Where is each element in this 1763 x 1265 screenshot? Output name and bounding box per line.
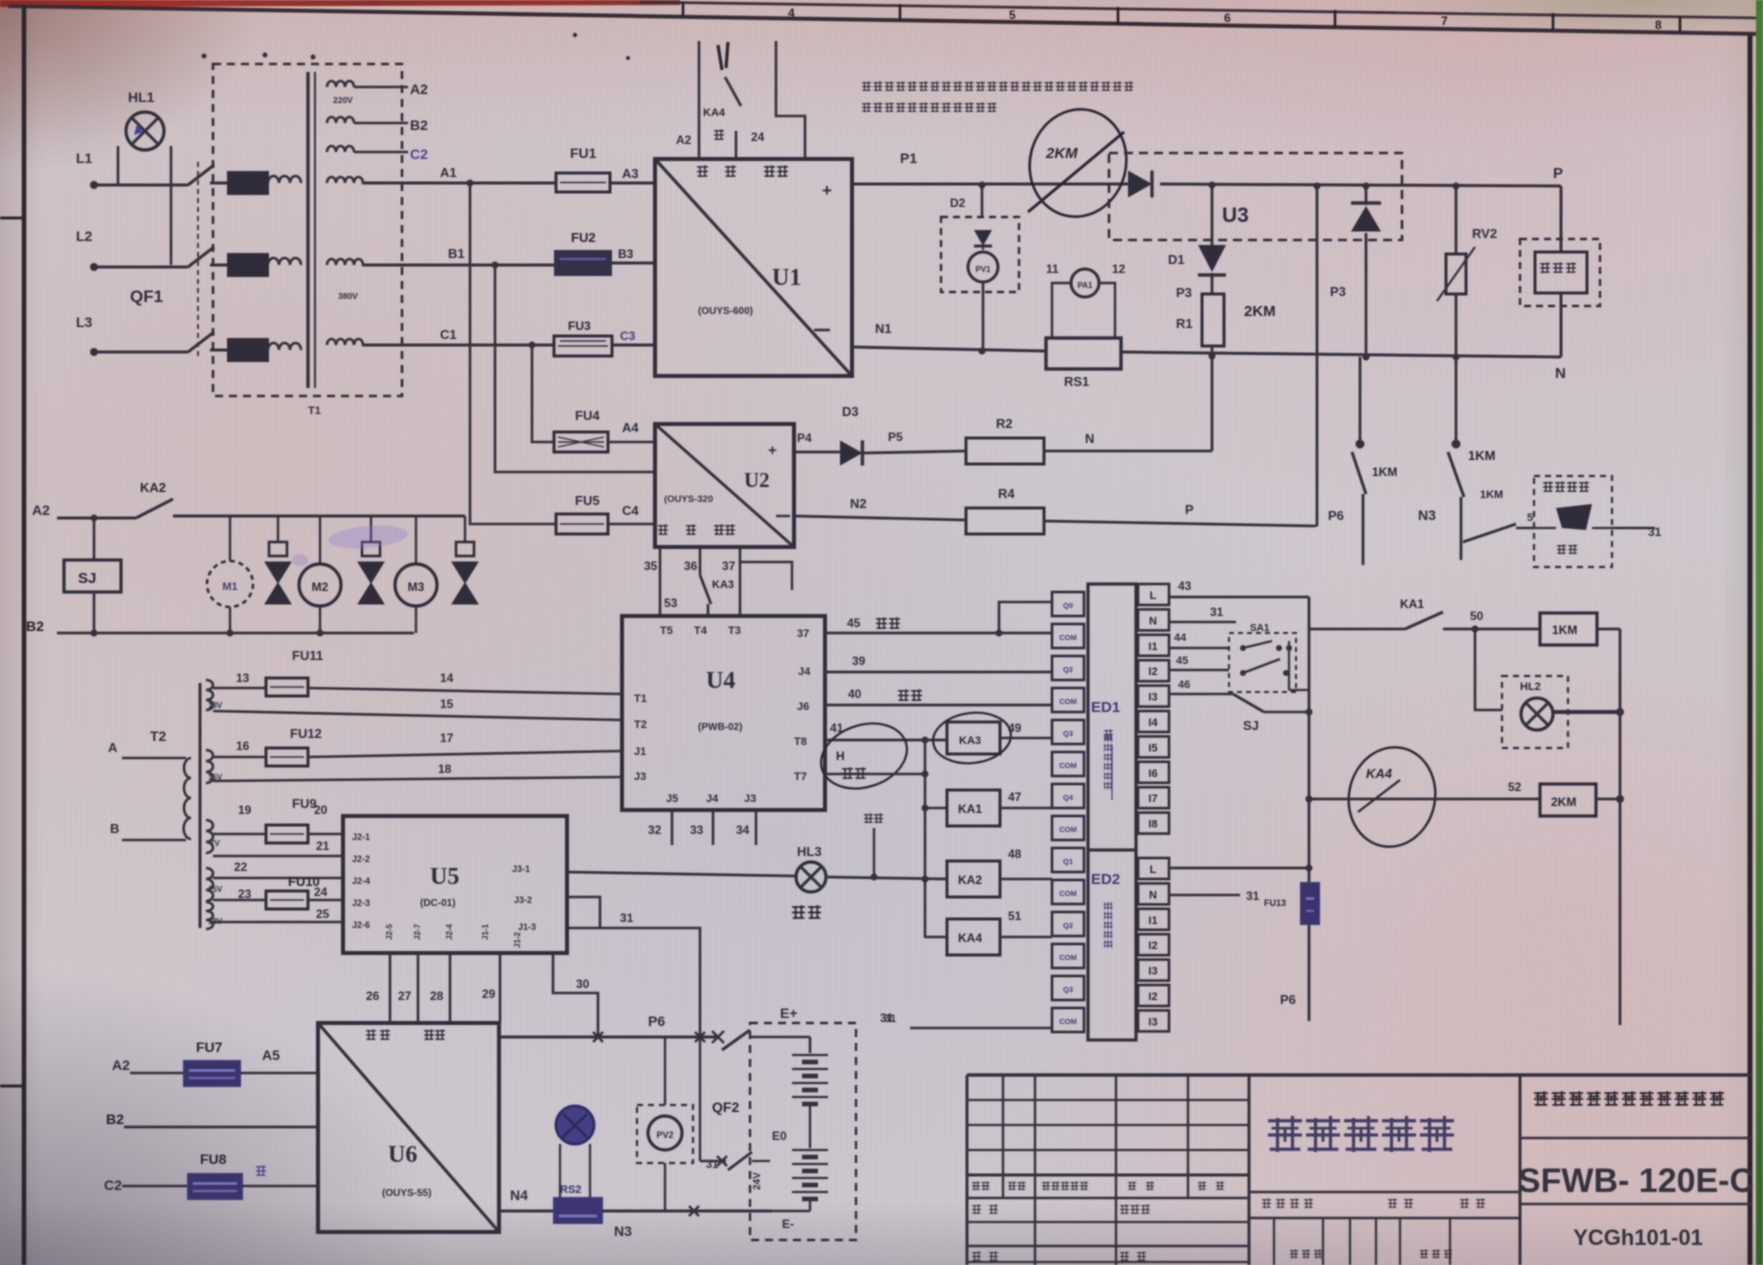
wire 31 to P6 (567, 911, 700, 1037)
wire 18 (213, 762, 622, 781)
breaker QF1 pole 1 (188, 165, 230, 185)
controller U4 (622, 616, 825, 810)
time relay SJ (64, 515, 121, 634)
transformer T1 core (308, 72, 315, 388)
company name (1534, 1091, 1724, 1106)
net B2 into U6 (106, 1111, 318, 1127)
wire C1 to FU4 branch (529, 342, 555, 443)
U2 pin colour labels (658, 524, 735, 535)
ED2 right terminal column (1138, 858, 1169, 1031)
motor M3 (395, 516, 437, 633)
fuse FU7 (112, 1039, 318, 1086)
net B2 row (26, 618, 414, 637)
meter stamp (blue) (556, 1106, 594, 1198)
wire T7 to relay bus (825, 771, 929, 778)
title text (electrical schematic) (1268, 1116, 1454, 1152)
fuse FU9 (213, 796, 343, 843)
wire 43 from ED1 L (1169, 579, 1309, 597)
ruler tick marks (683, 2, 1680, 32)
lamp HL1 (118, 89, 171, 265)
wire 30 to P6 (553, 953, 598, 1037)
relay coil KA2 (947, 847, 1052, 897)
wire 21 (213, 839, 343, 856)
wire 25 (213, 907, 343, 922)
transformer T1 enclosure (dashed) (213, 64, 402, 417)
transformer T1 primary winding C (228, 339, 301, 361)
wire A1 to FU5 branch (467, 180, 557, 525)
U1 input pin colour labels (697, 165, 788, 177)
node L1 (76, 150, 188, 189)
motor M1 (207, 516, 253, 633)
wire 15 (213, 697, 622, 720)
wire 52 and coil 2KM (1306, 780, 1625, 816)
relay contact KA1 and coil 1KM (1309, 597, 1620, 645)
wire 31 from ED1 N (1169, 605, 1236, 622)
relay coil KA4 (925, 909, 1052, 955)
freewheel module U3 (dashed) (1109, 153, 1402, 240)
wire 44 from ED1 I1 (1169, 632, 1229, 648)
diode D1 (1168, 182, 1226, 276)
time relay contact SJ (1233, 694, 1309, 733)
title block main dividers (1249, 1075, 1520, 1265)
U2 output pin 35 (644, 547, 660, 616)
fuse FU8 (104, 1151, 318, 1199)
diode inside U3 on P1 (1128, 171, 1561, 198)
T2 winding 7V (206, 820, 220, 853)
transformer T1 secondary winding B1 (327, 246, 465, 301)
sheet top ruler red band (0, 0, 680, 7)
transformer T1 secondary winding C1 (327, 327, 460, 345)
voltmeter PV2 (637, 1037, 693, 1211)
model number SFWB-120E-C (1518, 1162, 1754, 1200)
wire J3-2 jog (567, 897, 600, 928)
fuse FU12 (213, 726, 622, 766)
solenoid valve 3 (452, 516, 478, 604)
title block bottom row marks (967, 1250, 1452, 1262)
node L2 (76, 228, 188, 271)
wire 41 with relay coil KA3 (825, 708, 1052, 767)
annotation scribble on T8 wire (813, 713, 916, 799)
node L3 (76, 314, 188, 356)
right coil return bus (1619, 629, 1622, 1025)
battery negative link (770, 1210, 810, 1213)
wire 40 (temperature) to ED1 (825, 687, 1052, 705)
transformer T1 secondary winding A1 (327, 165, 457, 183)
battery enclosure (750, 1005, 896, 1240)
left margin tick y1086 (0, 1085, 22, 1088)
left margin tick y218 (0, 217, 22, 220)
fuse FU4 (554, 408, 655, 452)
varistor RV2 (1437, 183, 1497, 361)
fuse FU2 (460, 230, 655, 275)
title block sign rows (972, 1204, 1150, 1261)
shunt RS2 (499, 1184, 772, 1239)
thyristor branch in U3 (1351, 183, 1381, 361)
U5 bottom wire 26 (366, 953, 390, 1023)
rectifier U6 (318, 1023, 499, 1232)
ED1 right terminal column (1138, 584, 1169, 834)
breaker QF1 label and linkage (130, 162, 198, 360)
wire B2 into U1 (714, 129, 736, 159)
lamp HL3 (over-discharge) (567, 844, 947, 919)
breaker QF1 pole 2 (188, 247, 230, 267)
note text top (862, 81, 1133, 112)
wire E0 tap with QF2 middle pole (700, 1037, 770, 1171)
net P6 end (1280, 992, 1296, 1007)
U4 bottom stub 32 (648, 810, 672, 845)
wire 31 to ED2 (880, 1011, 1052, 1028)
sheet border left line (22, 6, 27, 1265)
relay coil bus (922, 738, 929, 938)
wire P6 from U6 (499, 1013, 724, 1043)
rectifier U2 (655, 424, 794, 547)
resistor R2 (966, 416, 1212, 464)
title block outer frame (967, 1075, 1752, 1265)
transformer T1 secondary tap A2 (327, 81, 428, 105)
battery cells (752, 1055, 828, 1231)
U5 bottom wire 27 (398, 953, 418, 1023)
fuse FU5 (556, 493, 655, 534)
wire 31 from ED2 N (1169, 889, 1260, 903)
ED terminal left column (1052, 592, 1084, 1032)
fuse FU1 (450, 145, 655, 192)
breaker QF1 pole 3 (188, 332, 230, 352)
wire 45 from ED1 I2 (1169, 655, 1229, 670)
sheet border top line (8, 2, 1763, 34)
U5 bottom wire 28 (430, 953, 450, 1023)
wire B1 to U2 branch (492, 262, 656, 473)
rectifier U1 (655, 159, 852, 376)
solenoid valve 1 (265, 516, 291, 604)
relay coil KA1 (925, 790, 1052, 826)
T2 winding 15V-1 (206, 750, 223, 783)
fuse FU11 (213, 648, 622, 696)
diode D3 (794, 404, 966, 466)
wire N2 and resistor R4 (794, 486, 1317, 534)
wire P1 rail (852, 150, 1130, 184)
control bus vertical (1306, 597, 1313, 1021)
title block revision row labels (972, 1182, 1224, 1190)
T2 winding 18V-1 (206, 680, 223, 710)
title block right rows (1520, 1138, 1752, 1204)
drawing number YCGh101-01 (1573, 1225, 1703, 1250)
node N (1555, 365, 1566, 382)
contactor contact 1KM (to P6) (1328, 357, 1397, 565)
motor M2 (299, 516, 341, 633)
annotation circled 2KM (1018, 99, 1137, 227)
wire A2 into U1 with relay contact KA4 (676, 41, 741, 159)
selector switch SA1 (1229, 623, 1309, 692)
title block left grid verticals (1003, 1075, 1188, 1265)
resistor R1 (1176, 273, 1276, 451)
T2 winding 15V-2 (206, 868, 223, 901)
wire P3 branch (1314, 183, 1346, 527)
lamp HL2 branch (1472, 626, 1625, 749)
U2 output pin 37 (722, 547, 792, 616)
wire 24 into U1 (751, 41, 805, 159)
annotation circled KA4 (1340, 739, 1445, 855)
contactor contact 1KM (fan feed) (1463, 524, 1516, 542)
sheet border right line (1748, 34, 1753, 1265)
photo right edge green strip (1756, 0, 1763, 1265)
node P (1553, 165, 1563, 252)
U5 bottom wire 29 (482, 953, 500, 1023)
transformer T1 primary winding A (228, 172, 301, 194)
transformer T2 (108, 683, 200, 928)
transformer T1 primary winding B (228, 254, 301, 276)
net B6 stub (864, 813, 883, 880)
ammeter PA1 with shunt RS1 (1046, 262, 1126, 389)
U4 bottom stub 33 (690, 810, 713, 845)
ink smudge (292, 523, 409, 566)
wire 45 (trigger) to ED1 (825, 602, 1052, 637)
U4 bottom stub 34 (736, 810, 756, 845)
wire 39 to ED1 (825, 654, 1052, 672)
title block left grid horizontals (967, 1100, 1249, 1246)
fuse FU3 (460, 319, 655, 356)
wire ED2 L to bus (1169, 867, 1309, 870)
wire N1 rail (852, 321, 1561, 357)
stray marks above T1 (202, 33, 631, 60)
title block middle sub-grid (1249, 1192, 1520, 1265)
controller U5 (343, 816, 567, 953)
net A2 row with contact KA2 (32, 480, 465, 518)
fuse FU13 (1264, 883, 1319, 924)
transformer T1 secondary tap C2 (327, 146, 428, 162)
transformer T1 secondary tap B2 (327, 117, 428, 133)
ruler zone numbers 4-8 (788, 6, 1662, 32)
voltmeter PV1 branch (941, 182, 1019, 355)
solenoid valve 2 (358, 516, 384, 604)
fuse FU10 (213, 874, 343, 909)
wire 46 from ED1 I3 (1169, 679, 1233, 694)
welder load box (1520, 239, 1600, 357)
ED terminal middle body (1088, 584, 1136, 1040)
T2 winding 18V-2 (206, 902, 223, 929)
wire 22 (213, 860, 343, 878)
breaker QF2 upper pole (712, 1030, 750, 1115)
U2 output pin 36 with contact KA3 (664, 547, 734, 616)
fan unit DC24V (1516, 476, 1662, 567)
contactor contact 1KM (to N3) (1418, 357, 1503, 560)
